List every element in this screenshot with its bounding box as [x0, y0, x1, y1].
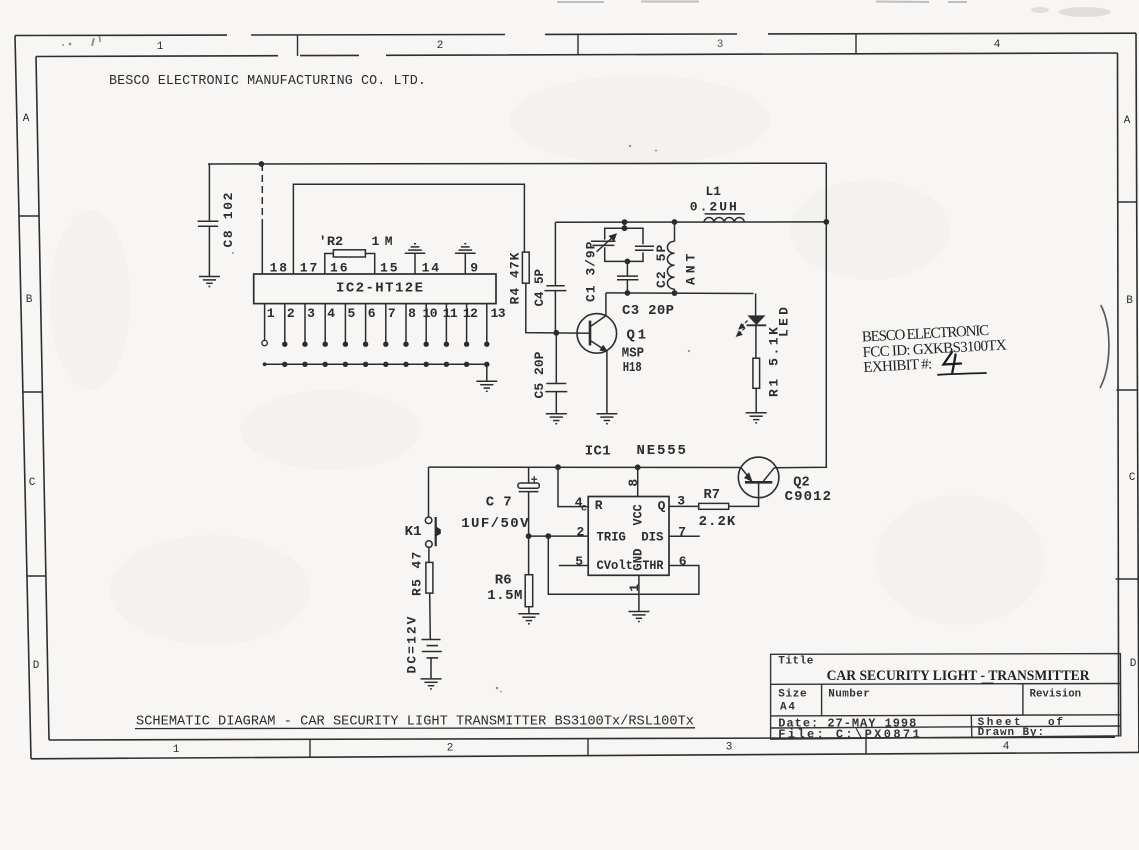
capacitor C1 trimmer tank box: [591, 228, 643, 261]
svg-text:6: 6: [368, 306, 376, 321]
svg-text:Q: Q: [658, 499, 666, 514]
svg-text:c: c: [581, 504, 587, 515]
svg-text:2: 2: [447, 743, 454, 755]
IC IC2 HT12E encoder body: [254, 274, 496, 304]
svg-text:18: 18: [270, 261, 288, 276]
capacitor C4: [544, 222, 566, 332]
node rail/C1 top: [622, 219, 628, 225]
ground below C8: [199, 277, 220, 287]
svg-text:NE555: NE555: [637, 443, 686, 459]
underline below title dash: [982, 682, 994, 684]
svg-text:R5 47: R5 47: [410, 552, 425, 596]
resistor R5: [426, 562, 433, 593]
svg-text:R7: R7: [704, 487, 720, 503]
svg-text:C2 5P: C2 5P: [654, 245, 669, 288]
IC2 bottom pin stubs 1-13: [265, 304, 487, 344]
svg-text:Number: Number: [828, 689, 870, 701]
svg-text:L1: L1: [706, 184, 722, 199]
ground below R1: [746, 413, 767, 423]
pencil smudge top right: [1031, 7, 1111, 17]
svg-text:C4 5P: C4 5P: [532, 269, 547, 307]
svg-text:3: 3: [677, 494, 685, 509]
node pin8 rail: [635, 464, 641, 470]
node junction C8/pin18 rail: [259, 161, 265, 167]
svg-text:8: 8: [408, 306, 416, 321]
svg-text:4: 4: [327, 306, 335, 321]
ground below Q1 emitter: [596, 414, 617, 424]
wire Q1 emitter down: [606, 351, 608, 413]
svg-text:7: 7: [678, 525, 686, 540]
svg-text:C9012: C9012: [785, 489, 831, 505]
svg-text:9: 9: [470, 261, 478, 276]
svg-text:11: 11: [443, 306, 458, 321]
svg-text:4: 4: [1003, 741, 1010, 753]
node tank box bottom: [625, 259, 631, 265]
wire rail down to K1: [428, 467, 430, 517]
scattered paper specks: [232, 145, 690, 693]
wire battery to ground: [430, 658, 432, 678]
wire R5 to battery: [429, 593, 432, 639]
svg-text:1: 1: [157, 41, 164, 53]
svg-text:8: 8: [626, 479, 641, 487]
wire pin16 stub: [325, 254, 334, 275]
ground above pin 9: [455, 244, 476, 254]
ground below C5: [546, 414, 567, 424]
zone numbers bottom: [173, 741, 1010, 756]
wire VCC rail to Q2 emitter: [429, 466, 741, 468]
svg-text:1UF/50V: 1UF/50V: [461, 516, 529, 532]
svg-text:A: A: [23, 113, 30, 125]
svg-text:THR: THR: [642, 558, 663, 573]
svg-text:D: D: [33, 660, 40, 672]
svg-text:Drawn By:: Drawn By:: [978, 727, 1045, 739]
bottom schematic caption: [135, 714, 695, 730]
wire R4 to Q1 base node: [526, 283, 590, 333]
node junction R4/C4/C5/Q1 base: [553, 330, 559, 336]
wire R1 to ground: [755, 388, 757, 412]
wire right edge vertical to Q2 collector: [774, 163, 826, 468]
wire rail to tank box top: [624, 222, 626, 228]
FCC exhibit stamp text block: [861, 322, 1007, 376]
right margin zone ticks: [1116, 202, 1138, 579]
resistor R7: [699, 503, 729, 509]
svg-text:BESCO ELECTRONIC MANUFACTURING: BESCO ELECTRONIC MANUFACTURING CO. LTD.: [109, 73, 426, 89]
left margin zone ticks: [19, 216, 46, 576]
wire K1 to R5: [428, 548, 430, 563]
svg-text:0.2UH: 0.2UH: [690, 200, 737, 215]
zone letters left margin: [23, 113, 40, 672]
svg-text:B: B: [1126, 295, 1133, 307]
antenna coil ANT: [667, 222, 674, 293]
svg-text:R6: R6: [495, 573, 512, 589]
svg-text:2: 2: [437, 40, 444, 52]
resistor R6: [525, 575, 533, 607]
node C7/R6 to pin2: [526, 533, 532, 539]
svg-text:Title: Title: [778, 656, 813, 668]
wire pin4 reset: [558, 467, 588, 506]
svg-text:DIS: DIS: [641, 530, 663, 545]
svg-text:Q1: Q1: [627, 328, 647, 344]
capacitor C3: [617, 261, 639, 293]
scan smudge marks top edge: [557, 1, 967, 4]
node ANT bottom: [672, 290, 678, 296]
wire ground bus under IC2: [265, 364, 487, 381]
svg-text:R: R: [595, 498, 603, 513]
ground below 555 pin1: [628, 612, 649, 622]
node pin4 rail: [555, 464, 561, 470]
zone letters right margin: [1124, 115, 1137, 670]
svg-text:CAR SECURITY LIGHT - TRANSMITT: CAR SECURITY LIGHT - TRANSMITTER: [827, 668, 1090, 684]
ground below R6: [518, 614, 539, 624]
svg-text:IC2-HT12E: IC2-HT12E: [336, 281, 423, 297]
wire pin7 stub: [669, 535, 700, 537]
C7 plus sign: [531, 476, 537, 482]
svg-text:2.2K: 2.2K: [699, 514, 736, 530]
wire node to R6: [528, 536, 530, 575]
capacitor C8: [198, 164, 219, 276]
wire rail to IC2 pin 18: [261, 164, 263, 274]
resistor R1: [753, 358, 760, 388]
svg-text:3: 3: [726, 742, 733, 754]
svg-text:R4 47K: R4 47K: [508, 252, 523, 304]
svg-text:TRIG: TRIG: [597, 530, 627, 545]
svg-text:4: 4: [994, 39, 1001, 51]
wire main top rail: [208, 162, 826, 165]
svg-text:1.5M: 1.5M: [487, 588, 522, 604]
svg-text:12: 12: [463, 306, 478, 321]
trimmer arrow C1: [597, 234, 616, 252]
transistor Q1: [577, 314, 617, 354]
svg-text:13: 13: [491, 306, 506, 321]
svg-text:File: C:\PX0871: File: C:\PX0871: [778, 727, 919, 741]
svg-text:3: 3: [307, 306, 315, 321]
svg-text:15: 15: [380, 261, 398, 276]
svg-text:C1 3/9P: C1 3/9P: [584, 241, 599, 302]
top margin zone ticks: [298, 34, 857, 56]
capacitor C2 plates on box right edge: [635, 246, 654, 250]
svg-text:5: 5: [575, 554, 583, 569]
svg-text:Revision: Revision: [1030, 689, 1082, 701]
svg-text:1: 1: [173, 744, 180, 756]
svg-text:LED: LED: [777, 307, 792, 337]
svg-text:B: B: [26, 294, 33, 306]
node dots on ground bus: [263, 362, 490, 367]
wire pin17 loop to R4: [293, 184, 524, 274]
svg-text:C: C: [1129, 472, 1136, 484]
node pin2/pin6 link: [545, 533, 551, 539]
handwritten 4 on exhibit line: [938, 352, 986, 375]
svg-text:A4: A4: [780, 702, 795, 714]
svg-text:C7: C7: [486, 495, 512, 511]
svg-text:IC1: IC1: [585, 444, 611, 460]
wire Q1 collector up: [605, 293, 607, 316]
wire to LED: [755, 294, 757, 316]
wire pin1 ground: [638, 575, 640, 611]
svg-text:2: 2: [287, 306, 295, 321]
transistor Q2: [738, 457, 779, 498]
svg-text:5: 5: [348, 306, 356, 321]
svg-text:C: C: [29, 477, 36, 489]
wire LED to R1: [755, 325, 757, 358]
svg-text:A: A: [1124, 115, 1131, 127]
svg-text:C8 102: C8 102: [221, 192, 236, 247]
wire pin9 stub: [464, 253, 466, 274]
svg-text:1M: 1M: [372, 234, 393, 249]
ground above pin 14: [405, 244, 426, 254]
pin numbers bottom row: [267, 306, 506, 321]
ground below battery: [421, 679, 442, 689]
svg-text:VCC: VCC: [631, 504, 646, 525]
wire pin15 stub: [365, 254, 374, 275]
title block frame: [771, 654, 1121, 740]
svg-text:of: of: [1048, 717, 1063, 729]
svg-text:10: 10: [423, 306, 438, 321]
node C3 bottom: [625, 290, 631, 296]
inductor L1: [704, 214, 745, 222]
node rail/ANT top: [672, 219, 678, 225]
svg-text:H18: H18: [623, 360, 642, 376]
timer IC1 NE555 body: [588, 497, 669, 576]
svg-text:2: 2: [577, 525, 585, 540]
switch K1: [425, 517, 440, 547]
wire R7 to 555 pin3: [669, 505, 699, 507]
svg-text:D: D: [1130, 658, 1137, 670]
svg-text:1: 1: [627, 584, 642, 592]
resistor R2: [333, 250, 365, 257]
svg-text:3: 3: [717, 39, 724, 51]
wire pin6 threshold loop: [548, 536, 699, 594]
wire pin8 VCC: [637, 467, 639, 496]
wire R6 to ground: [528, 607, 530, 614]
svg-text:ANT: ANT: [684, 254, 699, 285]
svg-text:C3 20P: C3 20P: [622, 303, 674, 319]
svg-text:Size: Size: [778, 689, 807, 701]
wire pin2 trigger: [529, 535, 589, 537]
capacitor C5: [545, 333, 567, 414]
battery DC=12V: [422, 640, 442, 658]
inner border frame: [36, 53, 1119, 740]
svg-text:C5 20P: C5 20P: [532, 351, 547, 398]
svg-text:14: 14: [422, 261, 440, 276]
ground at bus end: [476, 381, 497, 391]
node L1 right junction: [823, 219, 829, 225]
svg-text:CVolt: CVolt: [597, 558, 633, 573]
svg-text:6: 6: [679, 554, 687, 569]
bottom margin zone ticks: [310, 738, 866, 757]
zone numbers top: [157, 39, 1001, 53]
pin numbers top row 18 17 16 15 14 9: [270, 261, 479, 276]
scan artifact curved paren right side: [1100, 305, 1109, 388]
wire Q2 base down: [729, 482, 759, 506]
node pin1 open circle: [262, 340, 267, 345]
LED emission arrows: [737, 321, 748, 337]
svg-text:'R2: 'R2: [319, 234, 344, 249]
node dots on pin stubs 2-13: [282, 342, 489, 347]
capacitor C7 electrolytic: [518, 467, 539, 536]
svg-text:17: 17: [300, 261, 318, 276]
wire oscillator output line: [606, 292, 754, 295]
small specks near top-left inside margin: [62, 36, 101, 46]
svg-text:16: 16: [330, 261, 348, 276]
svg-text:K1: K1: [405, 524, 422, 540]
wire pin14 stub: [414, 253, 416, 274]
svg-text:1: 1: [267, 306, 275, 321]
wire RF supply rail y222: [555, 221, 826, 223]
diode LED: [747, 316, 767, 325]
svg-text:EXHIBIT #:: EXHIBIT #:: [863, 356, 932, 376]
resistor R4: [522, 252, 529, 283]
svg-text:DC=12V: DC=12V: [405, 616, 420, 673]
wire pin5 stub: [559, 565, 588, 567]
svg-text:SCHEMATIC DIAGRAM - CAR SECURI: SCHEMATIC DIAGRAM - CAR SECURITY LIGHT T…: [136, 714, 694, 730]
svg-text:7: 7: [388, 306, 396, 321]
